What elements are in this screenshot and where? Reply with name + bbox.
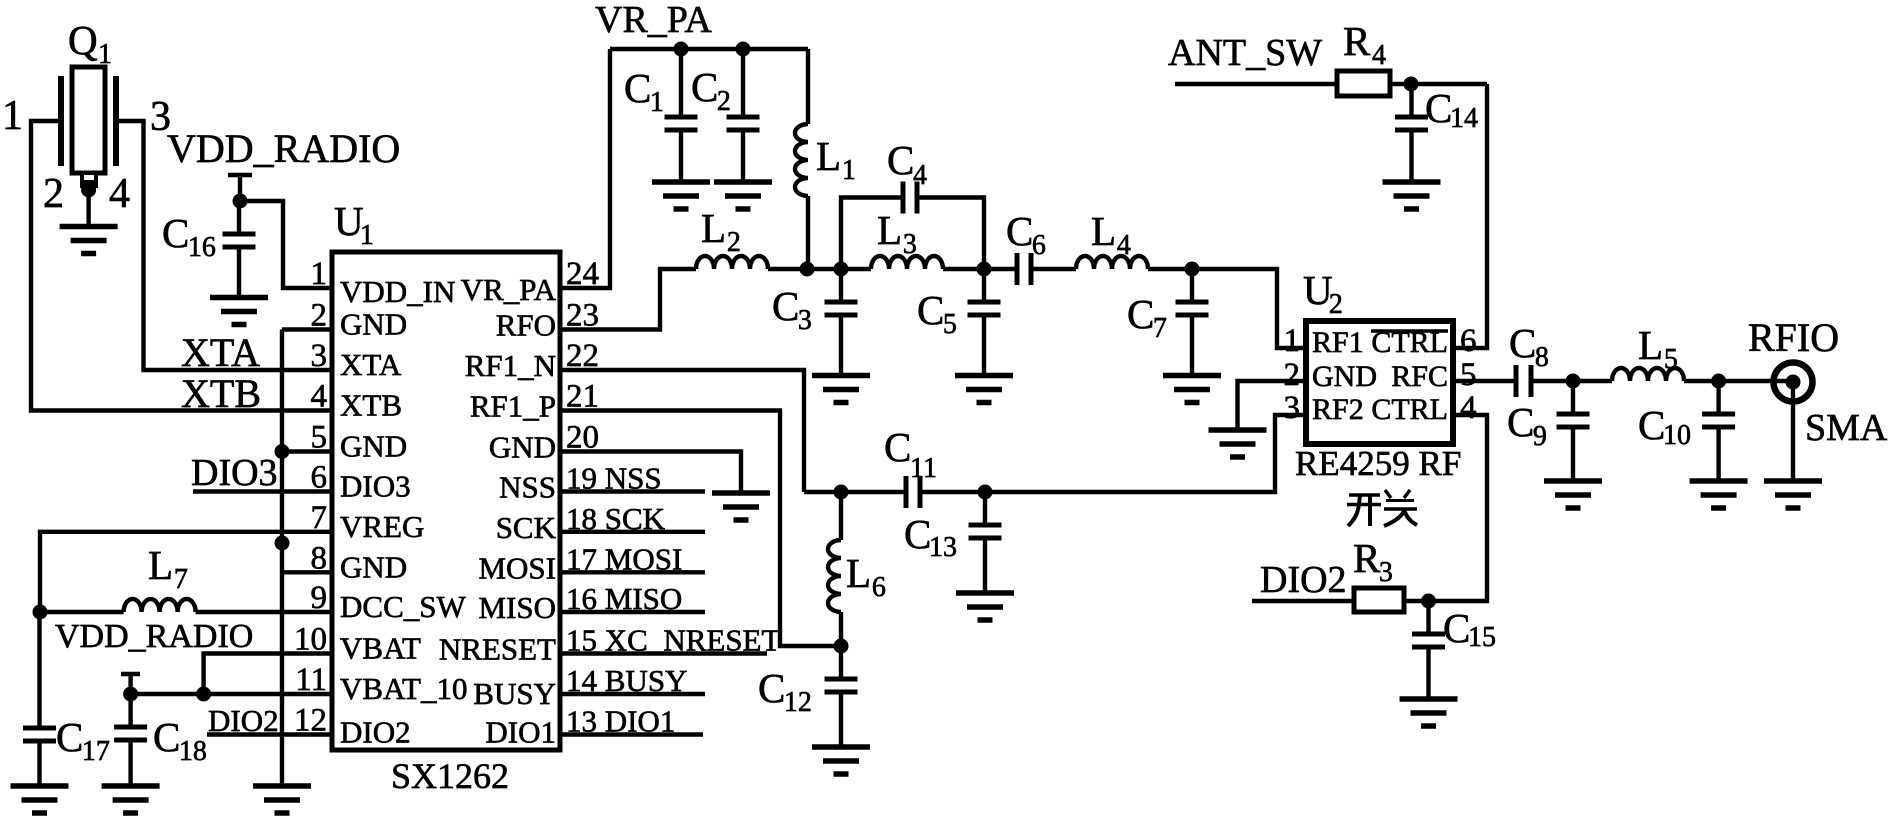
svg-text:4: 4 (109, 171, 130, 217)
svg-text:C: C (1638, 402, 1665, 448)
wire U1 pin18 SCK (560, 530, 705, 534)
wire U1 pin14 BUSY (560, 692, 705, 696)
svg-text:C: C (917, 287, 944, 333)
capacitor C11 (841, 490, 904, 494)
ground U2 pin2 (1209, 427, 1267, 433)
svg-text:C: C (1507, 399, 1534, 445)
svg-text:7: 7 (1153, 313, 1167, 344)
wire R3 to node (1404, 599, 1429, 603)
svg-text:6: 6 (872, 572, 886, 603)
wire VDD_RADIO to U1 pin1 (240, 201, 332, 288)
svg-text:C: C (904, 511, 931, 557)
capacitor C6 (984, 267, 1015, 271)
ground C14 (1383, 179, 1441, 185)
junction L6/C12 node (834, 639, 849, 654)
svg-text:MOSI: MOSI (478, 550, 556, 585)
junction VREG/L7/C17 (33, 605, 48, 620)
inductor L4 (1076, 256, 1148, 269)
ground C9 (1544, 478, 1602, 484)
svg-text:18 SCK: 18 SCK (566, 501, 666, 536)
junction C1 top (674, 42, 689, 57)
capacitor C2 (741, 49, 745, 117)
junction C13 top (978, 485, 993, 500)
IC U2 RE4259 body (1306, 321, 1453, 444)
svg-text:8: 8 (311, 540, 328, 576)
inductor L5 (1573, 379, 1612, 383)
svg-text:DIO3: DIO3 (340, 469, 411, 504)
svg-text:18: 18 (179, 736, 207, 767)
svg-text:3: 3 (903, 229, 917, 260)
wire U1 pin13 DIO1 (560, 732, 703, 736)
svg-text:C: C (691, 64, 718, 110)
wire C8 to C9 node (1533, 379, 1573, 383)
capacitor C3 (839, 269, 843, 302)
junction C7 node (1185, 262, 1200, 277)
svg-text:C: C (1127, 291, 1154, 337)
inductor L1 (806, 49, 810, 124)
svg-text:10: 10 (294, 622, 327, 658)
capacitor C4 branch (841, 198, 901, 270)
svg-text:GND: GND (340, 549, 407, 584)
svg-text:ANT_SW: ANT_SW (1168, 32, 1322, 74)
wire U2 pin2 GND (1238, 381, 1307, 430)
wire U1 pin5 GND stub (282, 449, 332, 453)
junction C5 node (977, 262, 992, 277)
svg-text:VDD_IN: VDD_IN (340, 274, 455, 309)
inductor L7 (40, 610, 124, 614)
connector RFIO SMA ring (1774, 363, 1813, 402)
wire U2 pin4 CTRL down (1429, 415, 1488, 601)
svg-text:2: 2 (727, 227, 741, 258)
svg-text:17: 17 (82, 736, 110, 767)
svg-text:DIO2: DIO2 (1260, 559, 1347, 601)
wire U1 pin24 to VR_PA rail (560, 49, 610, 288)
ground C2 (714, 179, 772, 185)
svg-text:19 NSS: 19 NSS (566, 461, 662, 496)
wire C10 node to RFIO (1719, 379, 1793, 383)
wire U1 pin21 RF1_P (560, 411, 841, 647)
wire R4 to corner (1390, 82, 1487, 86)
svg-text:DIO1: DIO1 (485, 715, 556, 750)
capacitor C5 (982, 269, 986, 302)
ground C1 (652, 179, 710, 185)
power tap VDD_RADIO top (228, 173, 252, 178)
svg-text:XTB: XTB (181, 371, 261, 416)
svg-text:R: R (1343, 18, 1371, 64)
junction C18 top (123, 687, 138, 702)
svg-text:9: 9 (1533, 421, 1547, 452)
svg-text:3: 3 (798, 305, 812, 336)
wire Q1 pin1 to XTB (31, 121, 332, 411)
svg-text:C: C (153, 714, 180, 760)
svg-text:6: 6 (1032, 230, 1046, 261)
capacitor C18 (128, 694, 132, 727)
junction VDD_RADIO/C16 (233, 194, 248, 209)
ground C18 (102, 783, 160, 789)
svg-text:VREG: VREG (340, 509, 424, 544)
svg-text:VDD_RADIO: VDD_RADIO (55, 618, 253, 655)
resistor R4 (1337, 71, 1390, 96)
svg-text:6: 6 (1460, 323, 1477, 359)
inductor L6 (839, 492, 843, 540)
svg-text:1: 1 (650, 87, 664, 118)
junction C2 top (736, 42, 751, 57)
ground U1 pin20 (712, 490, 770, 496)
junction C14 top (1404, 77, 1419, 92)
svg-text:XTA: XTA (340, 347, 402, 382)
svg-text:DIO2: DIO2 (208, 703, 279, 738)
svg-text:16: 16 (188, 232, 216, 263)
wire RF1_N line to C11 (804, 490, 841, 494)
svg-text:R: R (1353, 535, 1381, 581)
svg-text:CTRL: CTRL (1371, 393, 1448, 426)
svg-text:2: 2 (43, 171, 64, 217)
power tap VDD_RADIO bottom (121, 672, 140, 677)
junction GND bus pin8 (275, 536, 290, 551)
svg-text:C: C (758, 665, 785, 711)
svg-text:C: C (1443, 605, 1470, 651)
svg-text:NSS: NSS (499, 470, 556, 505)
svg-text:C: C (1006, 208, 1033, 254)
crystal Q1 body (61, 67, 116, 193)
svg-text:11: 11 (295, 662, 327, 698)
ground C15 (1400, 696, 1458, 702)
wire U1 pin8 GND stub (282, 570, 332, 574)
wire U1 pin2 GND stub (282, 327, 332, 331)
svg-text:4: 4 (311, 379, 328, 415)
svg-text:SX1262: SX1262 (391, 756, 509, 796)
wire DIO2 to R3 (1252, 599, 1354, 603)
wire Q1 pin3 to XTA (116, 121, 332, 370)
ground SMA (1764, 478, 1822, 484)
svg-text:VBAT: VBAT (340, 631, 421, 666)
ground C7 (1163, 373, 1221, 379)
capacitor C7 (1190, 269, 1194, 302)
junction C9 top (1566, 374, 1581, 389)
wire VR_PA bus (610, 47, 808, 51)
svg-text:RF1_P: RF1_P (470, 389, 556, 424)
svg-text:VR_PA: VR_PA (461, 272, 557, 307)
IC U1 SX1262 body (332, 252, 560, 750)
wire U2 pin5 RFC to C8 (1453, 379, 1514, 383)
ground C12 (812, 744, 870, 750)
svg-text:NRESET: NRESET (439, 632, 556, 667)
svg-text:14 BUSY: 14 BUSY (566, 663, 687, 698)
wire U1 pin16 MISO (560, 610, 705, 614)
svg-text:5: 5 (1460, 357, 1477, 393)
svg-text:5: 5 (1664, 344, 1678, 375)
svg-text:7: 7 (174, 564, 188, 595)
svg-text:RFO: RFO (496, 308, 556, 343)
wire GND bus left (280, 330, 284, 787)
wire U1 pin10 VBAT (204, 654, 332, 695)
svg-text:RE4259 RF: RE4259 RF (1295, 444, 1461, 483)
wire U1 pin22 RF1_N (560, 370, 804, 492)
junction RFIO center (1786, 375, 1801, 390)
svg-text:12: 12 (784, 687, 812, 718)
ground C5 (955, 373, 1013, 379)
svg-text:MISO: MISO (478, 590, 556, 625)
capacitor C13 (983, 492, 987, 525)
svg-text:BUSY: BUSY (473, 676, 556, 711)
junction Q1 case (81, 183, 96, 198)
ground GND bus (253, 783, 311, 789)
label U2 part Chinese switch (1347, 495, 1381, 526)
svg-text:14: 14 (1450, 103, 1478, 134)
svg-text:VR_PA: VR_PA (595, 0, 712, 41)
svg-text:L: L (816, 133, 841, 179)
junction L1/L2 node (800, 262, 815, 277)
svg-text:GND: GND (489, 430, 556, 465)
capacitor C17 (37, 612, 41, 728)
junction GND bus pin5 (275, 444, 290, 459)
svg-text:4: 4 (913, 160, 927, 191)
ground C17 (11, 783, 69, 789)
capacitor C10 (1716, 381, 1720, 414)
svg-text:3: 3 (1284, 390, 1301, 426)
junction L6 top (834, 485, 849, 500)
svg-text:2: 2 (311, 298, 328, 334)
svg-text:L: L (1638, 322, 1663, 368)
svg-text:9: 9 (311, 580, 328, 616)
svg-text:L: L (701, 205, 726, 251)
wire U1 pin6 DIO3 (193, 489, 332, 493)
svg-text:GND: GND (340, 429, 407, 464)
wire node to C3 (807, 267, 841, 271)
svg-text:DIO3: DIO3 (191, 452, 278, 494)
capacitor C12 (839, 646, 843, 679)
svg-text:C: C (56, 714, 83, 760)
svg-text:XTB: XTB (340, 388, 402, 423)
wire U1 pin7 VREG (40, 532, 332, 612)
svg-text:GND: GND (1312, 360, 1377, 393)
svg-text:C: C (1425, 85, 1452, 131)
svg-text:C: C (884, 424, 911, 470)
svg-text:RFC: RFC (1391, 360, 1448, 393)
wire U1 pin15 XC_NRESET (560, 651, 767, 655)
wire U1 pin23 RFO to L2 (560, 269, 696, 330)
svg-text:15 XC_NRESET: 15 XC_NRESET (566, 623, 780, 658)
wire U1 pin11 VBAT_10 (131, 692, 332, 696)
svg-text:6: 6 (311, 460, 328, 496)
svg-text:4: 4 (1117, 230, 1131, 261)
wire U1 pin20 GND (560, 452, 741, 494)
svg-text:8: 8 (1535, 342, 1549, 373)
svg-text:1: 1 (1284, 323, 1301, 359)
svg-text:1: 1 (2, 93, 23, 139)
wire U1 pin19 NSS (560, 489, 705, 493)
svg-text:1: 1 (842, 155, 856, 186)
svg-text:VBAT_10: VBAT_10 (340, 671, 467, 706)
capacitor C9 (1571, 381, 1575, 414)
svg-text:RFIO: RFIO (1748, 315, 1839, 360)
svg-text:C: C (162, 210, 189, 256)
junction C10 top (1711, 374, 1726, 389)
svg-text:GND: GND (340, 307, 407, 342)
svg-text:12: 12 (294, 703, 327, 739)
svg-text:13 DIO1: 13 DIO1 (566, 704, 675, 739)
svg-text:C: C (887, 137, 914, 183)
svg-text:1: 1 (98, 39, 112, 70)
ground C16 (210, 295, 268, 301)
svg-text:RF1_N: RF1_N (465, 348, 556, 383)
svg-text:15: 15 (1468, 622, 1496, 653)
svg-text:2: 2 (1329, 289, 1343, 320)
wire RFIO to ground (1791, 382, 1795, 481)
inductor L3 (841, 267, 871, 271)
svg-text:3: 3 (1379, 557, 1393, 588)
capacitor C1 (679, 49, 683, 117)
svg-text:DIO2: DIO2 (340, 715, 411, 750)
svg-text:RF2: RF2 (1312, 393, 1364, 426)
capacitor C8 (1514, 365, 1519, 397)
wire C11 line to U2 pin3 (985, 415, 1306, 492)
wire ANT_SW down to U2 pin6 (1453, 84, 1487, 348)
wire U1 pin12 DIO2 (207, 732, 332, 736)
svg-text:7: 7 (311, 500, 328, 536)
svg-text:17 MOSI: 17 MOSI (566, 541, 682, 576)
junction R3/C15 node (1421, 594, 1436, 609)
svg-text:1: 1 (360, 220, 374, 251)
wire U1 pin17 MOSI (560, 570, 705, 574)
svg-text:4: 4 (1372, 40, 1386, 71)
wire node to U2 pin1 (1192, 269, 1306, 348)
svg-text:11: 11 (910, 453, 937, 484)
svg-text:L: L (877, 207, 902, 253)
svg-text:SMA: SMA (1805, 407, 1888, 449)
resistor R3 (1354, 588, 1404, 612)
svg-text:C: C (624, 65, 651, 111)
ground Q1 (60, 224, 118, 230)
svg-text:DCC_SW: DCC_SW (340, 589, 466, 624)
svg-text:L: L (1091, 208, 1116, 254)
svg-text:10: 10 (1663, 420, 1691, 451)
capacitor C15 (1426, 601, 1430, 634)
svg-text:16 MISO: 16 MISO (566, 581, 682, 616)
svg-text:3: 3 (311, 338, 328, 374)
svg-text:2: 2 (1284, 357, 1301, 393)
capacitor C14 (1409, 84, 1413, 117)
svg-text:13: 13 (929, 532, 957, 563)
svg-text:L: L (148, 542, 173, 588)
wire ANT_SW to R4 (1175, 82, 1337, 86)
svg-text:5: 5 (311, 420, 328, 456)
svg-text:RF1: RF1 (1312, 326, 1364, 359)
capacitor C16 (237, 201, 241, 234)
junction C3/C4 node (834, 262, 849, 277)
svg-text:Q: Q (68, 17, 98, 63)
svg-text:1: 1 (311, 256, 328, 292)
svg-text:VDD_RADIO: VDD_RADIO (167, 126, 400, 171)
junction VBAT branch (196, 687, 211, 702)
svg-text:SCK: SCK (496, 510, 557, 545)
inductor L2 (696, 256, 768, 269)
svg-text:2: 2 (717, 86, 731, 117)
svg-text:5: 5 (943, 309, 957, 340)
svg-text:XTA: XTA (181, 330, 260, 375)
ground C3 (812, 373, 870, 379)
svg-text:L: L (846, 550, 871, 596)
svg-text:C: C (772, 283, 799, 329)
wire Q1 case to ground (86, 190, 90, 227)
svg-text:4: 4 (1460, 390, 1477, 426)
svg-text:C: C (1509, 320, 1536, 366)
ground C10 (1690, 478, 1748, 484)
ground C13 (956, 590, 1014, 596)
